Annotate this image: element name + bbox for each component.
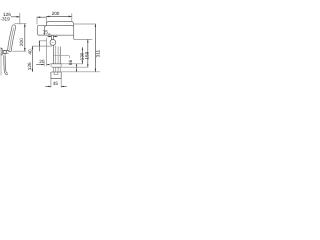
leader from text [11, 16, 20, 18]
ext line y=40.8 [39, 40, 47, 42]
svg-text:159: 159 [85, 51, 90, 59]
foot inner stub [54, 72, 58, 75]
wall line [0, 47, 2, 76]
arrows 130 [82, 47, 83, 50]
seat front rim contour [38, 24, 73, 27]
leg folded, side view: inner edge [5, 55, 8, 73]
seat slab folded up: left edge [8, 28, 12, 50]
dim line 126 [31, 46, 33, 72]
arrows 15 [49, 36, 52, 37]
dim 200 vertical: extension top [15, 23, 27, 25]
seat bottom edge [38, 34, 74, 36]
arrow 200-top left [46, 16, 49, 18]
left extension [45, 16, 47, 23]
dim 159 line [87, 39, 89, 67]
right arrow line [54, 36, 58, 38]
base line [51, 71, 61, 73]
arrows 45 [48, 86, 51, 87]
arrows 66 [76, 64, 77, 66]
seat slab bottom cap [8, 50, 12, 52]
svg-text:311: 311 [96, 50, 100, 58]
ext line y=63.8 (right of joint) [63, 63, 83, 65]
dim 200 vertical: dimension line [24, 24, 26, 52]
seat slab top cap [12, 25, 16, 29]
svg-text:15: 15 [43, 30, 49, 35]
dim 311 line [94, 24, 96, 72]
dim 130 line [81, 47, 83, 64]
svg-text:126: 126 [27, 62, 32, 70]
ext line y=24 from seat to 371-dim [74, 23, 96, 25]
arrow 200-side bottom [24, 48, 26, 51]
leader under text [48, 33, 51, 35]
hinge circle [3, 50, 7, 54]
ext lines [51, 79, 61, 88]
dim line 40 [38, 41, 40, 52]
arrow 126-319 left (tip x=19.8) [17, 16, 20, 18]
hinge bracket plates under seat [52, 35, 54, 40]
ext line y=72 long baseline [61, 71, 100, 73]
arrow 126-319 right (tip x=37) [37, 16, 40, 18]
bracket links [2, 51, 9, 54]
right extension [71, 13, 73, 22]
ext line y=67.2 [60, 66, 88, 68]
lower leg tube [53, 67, 60, 72]
ext line y=46.1 [32, 45, 52, 47]
joint plate sides [51, 64, 61, 67]
ext x=46.6 [46, 38, 48, 67]
joint plate bottom line [52, 66, 60, 68]
ext x=44.3 [43, 63, 45, 67]
svg-text:-319: -319 [0, 17, 10, 22]
leg folded, side view: outer edge [4, 55, 8, 75]
dimension line [46, 15, 72, 17]
arrows 126 [32, 46, 33, 49]
leg tube outer lines [53, 45, 60, 64]
foot block [51, 72, 61, 79]
right extension line [36, 17, 38, 25]
joint plate top line [50, 63, 62, 65]
seat front-left inner edge [44, 26, 46, 35]
left extension line [19, 13, 21, 25]
arrow 200-side top [24, 24, 26, 27]
seat left face ")" curve [36, 25, 39, 35]
left arrow line [48, 36, 52, 38]
seat slab right edge [11, 27, 16, 51]
ext line y=39.4 [74, 38, 93, 40]
svg-text:66: 66 [68, 59, 73, 65]
dim 66 line [76, 64, 78, 72]
tube joint line with stepped extension [53, 56, 69, 58]
svg-text:40: 40 [28, 49, 33, 55]
dim 20 line right [47, 64, 50, 66]
pivot circle front view [50, 40, 56, 46]
arrows 40 [39, 41, 40, 43]
arrows 159 [87, 39, 88, 42]
trailing line with arrow [37, 16, 46, 18]
leg tube inner lines [56, 46, 58, 64]
wall bracket plate [1, 49, 2, 55]
svg-text:45: 45 [53, 81, 59, 86]
arrow 20 [41, 64, 44, 65]
seat slab middle line [10, 28, 14, 51]
svg-text:130: 130 [79, 52, 84, 60]
dim 20 line left [36, 64, 44, 66]
dim 200 vertical: extension bottom [12, 50, 26, 52]
seat outer contour [46, 21, 73, 39]
svg-text:200: 200 [19, 38, 24, 46]
svg-text:200: 200 [52, 11, 60, 16]
pivot pin dot [52, 42, 53, 43]
arrows 311 [95, 24, 96, 27]
svg-text:20: 20 [39, 59, 45, 64]
dim line [45, 85, 66, 87]
arrow 200-top right [69, 16, 72, 18]
